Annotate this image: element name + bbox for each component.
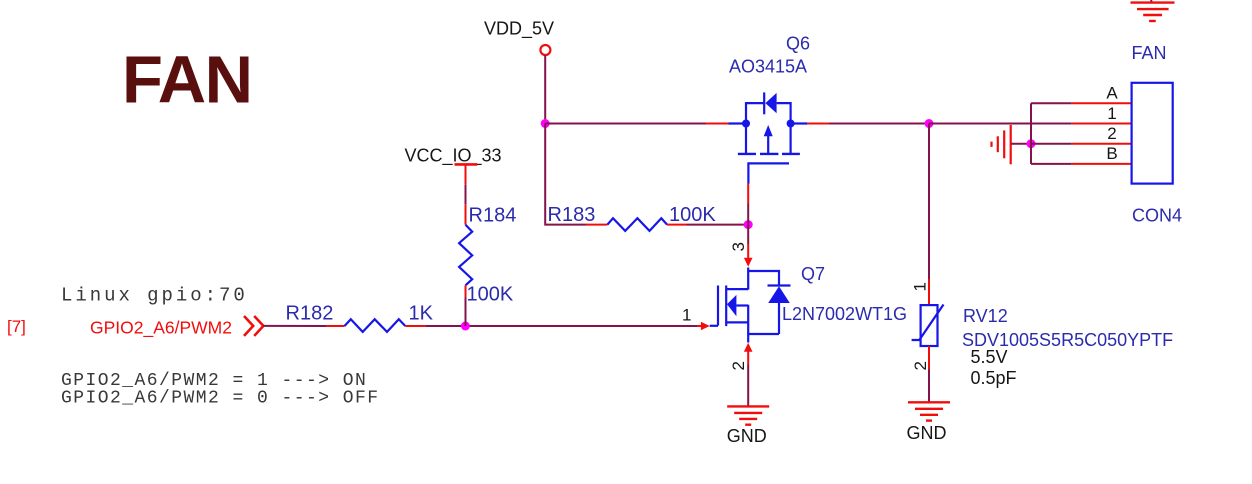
wire Q6 source pin (red)	[706, 123, 729, 125]
wire Q6 drain to output node	[829, 123, 929, 125]
svg-text:VCC_IO_33: VCC_IO_33	[405, 146, 502, 167]
pin 1 of Q7 (red with arrow)	[697, 322, 710, 331]
svg-text:Linux gpio:70: Linux gpio:70	[61, 285, 248, 307]
svg-text:5.5V: 5.5V	[971, 347, 1008, 367]
svg-text:R183: R183	[548, 204, 596, 226]
svg-text:R184: R184	[469, 205, 517, 227]
svg-text:Q7: Q7	[801, 264, 825, 284]
resistor R182	[326, 319, 426, 332]
svg-text:R182: R182	[286, 303, 334, 325]
wire connector bus	[1030, 103, 1032, 164]
svg-text:A: A	[1106, 84, 1118, 103]
pin 2 of Q7 (red with arrow)	[744, 334, 753, 365]
pin A of CON4 (red)	[1072, 102, 1132, 104]
wire output node down to RV12	[928, 124, 930, 280]
transistor Q6	[729, 92, 808, 183]
varistor RV12	[912, 305, 944, 347]
svg-text:GND: GND	[907, 423, 947, 443]
svg-text:RV12: RV12	[963, 306, 1008, 326]
wire output node to connector	[929, 123, 1072, 125]
svg-text:FAN: FAN	[122, 43, 252, 118]
svg-text:100K: 100K	[467, 283, 514, 305]
svg-text:2: 2	[911, 361, 930, 370]
wire R182 to gate input node	[426, 325, 697, 327]
connector CON4 body	[1132, 83, 1173, 184]
svg-text:[7]: [7]	[7, 317, 26, 336]
svg-text:0.5pF: 0.5pF	[971, 368, 1017, 388]
svg-text:2: 2	[1107, 124, 1116, 143]
wire R183 to gate node	[687, 224, 749, 226]
wire port to R182	[263, 325, 326, 327]
wire Q6 drain pin (red)	[807, 123, 829, 125]
wire VCC to R184	[465, 185, 467, 205]
wire Q6 gate pin (red)	[747, 184, 749, 204]
node gate junction	[744, 220, 753, 229]
node output junction	[925, 119, 934, 128]
wire VDD_5V vertical	[544, 55, 546, 123]
power symbol VCC_IO_33	[405, 146, 502, 185]
svg-text:AO3415A: AO3415A	[729, 57, 807, 77]
pin 1 of RV12 (red)	[928, 279, 930, 305]
wire VDD junction to Q6 source	[545, 123, 706, 125]
svg-text:GPIO2_A6/PWM2: GPIO2_A6/PWM2	[90, 318, 232, 339]
svg-text:CON4: CON4	[1132, 205, 1182, 225]
svg-text:Q6: Q6	[786, 34, 810, 54]
wire bus to pin A	[1031, 102, 1072, 104]
pin 3 of Q7 (red with arrow)	[744, 244, 753, 267]
wire bus to pin B	[1031, 163, 1072, 165]
svg-text:VDD_5V: VDD_5V	[484, 19, 554, 40]
node R184 junction	[461, 322, 470, 331]
svg-text:3: 3	[729, 242, 748, 251]
svg-text:L2N7002WT1G: L2N7002WT1G	[782, 304, 907, 324]
wire Q7 source to GND	[747, 365, 749, 407]
wire gate node down to Q7 (dark)	[747, 225, 749, 244]
wire RV12 to GND	[928, 370, 930, 403]
ground under RV12	[908, 402, 950, 420]
resistor R184	[459, 204, 472, 297]
chassis ground near CON4	[992, 125, 1011, 164]
svg-text:2: 2	[729, 361, 748, 370]
node pin2 junction	[1027, 139, 1036, 148]
transistor Q7	[710, 268, 791, 335]
svg-text:B: B	[1106, 144, 1117, 163]
svg-text:GPIO2_A6/PWM2 = 0 ---> OFF: GPIO2_A6/PWM2 = 0 ---> OFF	[61, 389, 380, 409]
ground under Q7	[727, 406, 769, 424]
port chevron	[244, 316, 263, 336]
wire gate node up (dark)	[747, 204, 749, 225]
wire VDD branch down to R183	[545, 124, 586, 225]
resistor R183	[586, 218, 687, 231]
svg-text:1: 1	[1107, 104, 1116, 123]
pin 2 of RV12 (red)	[928, 346, 930, 370]
node VDD_5V junction	[541, 119, 550, 128]
wire bus to pin 2	[1031, 143, 1072, 145]
pin B of CON4 (red)	[1072, 163, 1132, 165]
svg-text:GND: GND	[727, 426, 767, 446]
wire R184 to node	[465, 298, 467, 327]
svg-text:1: 1	[911, 282, 930, 291]
wire chassis to pin2 node	[1011, 143, 1031, 145]
svg-text:FAN: FAN	[1132, 43, 1167, 63]
ground top right	[1131, 0, 1175, 21]
pin 2 of CON4 (red)	[1072, 143, 1132, 145]
svg-text:1K: 1K	[409, 303, 434, 325]
power symbol VDD_5V	[484, 19, 554, 56]
pin 1 of CON4 (red)	[1072, 123, 1132, 125]
svg-text:100K: 100K	[669, 204, 716, 226]
svg-text:1: 1	[682, 306, 691, 325]
